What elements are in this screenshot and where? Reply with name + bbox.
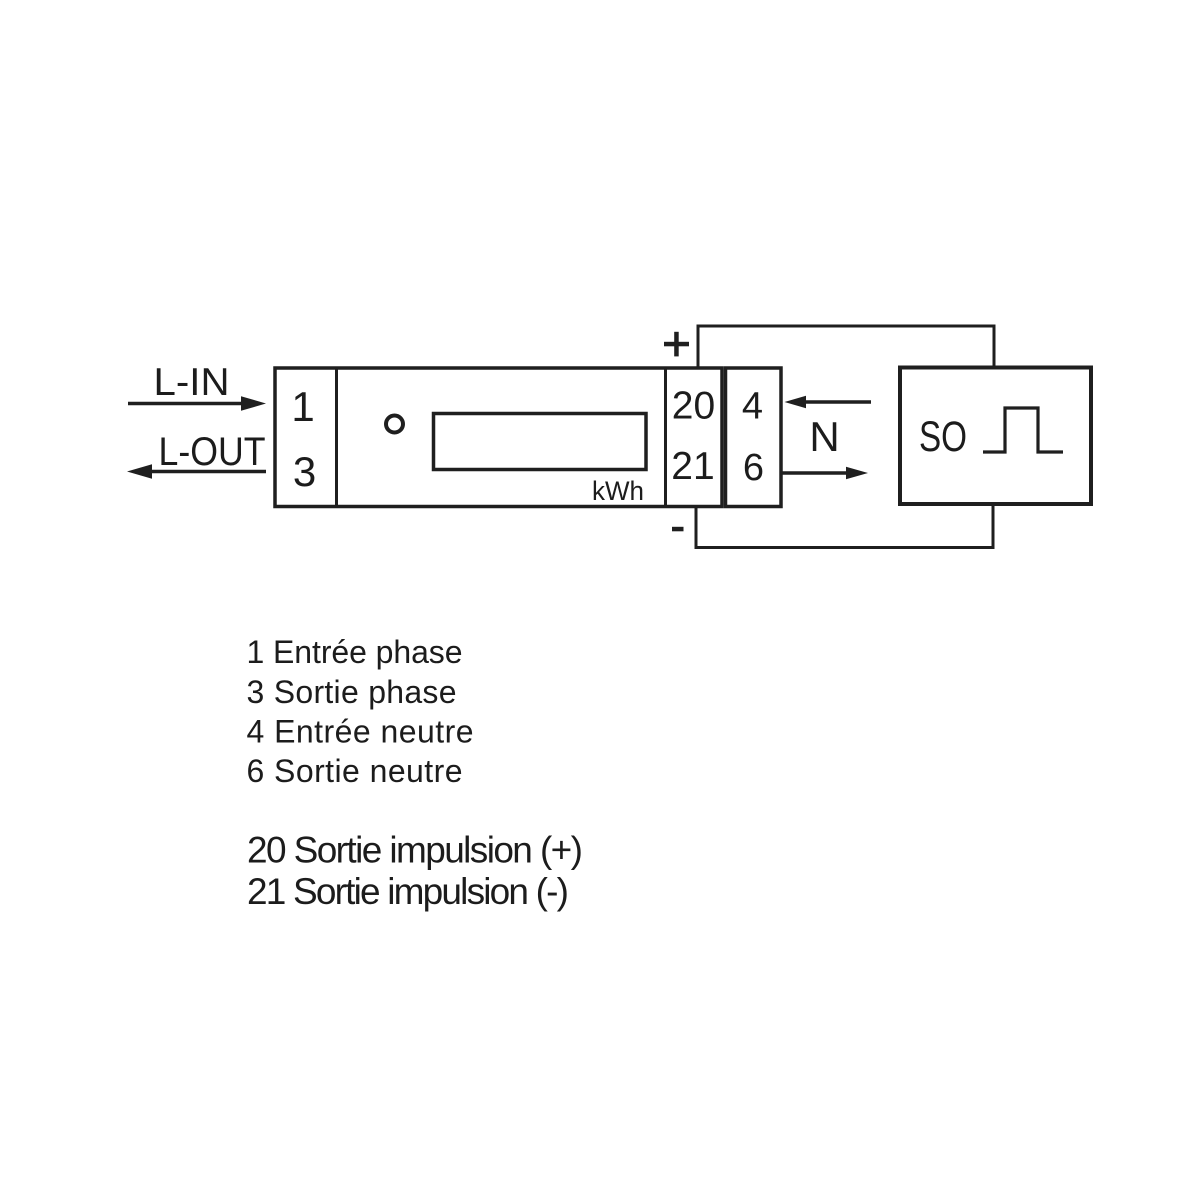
svg-text:1 Entrée phase: 1 Entrée phase xyxy=(247,634,463,670)
svg-text:L-OUT: L-OUT xyxy=(159,430,266,474)
svg-text:N: N xyxy=(809,413,839,460)
svg-text:4: 4 xyxy=(742,386,763,428)
svg-text:6: 6 xyxy=(743,447,764,489)
svg-text:6 Sortie neutre: 6 Sortie neutre xyxy=(247,753,463,789)
svg-text:3: 3 xyxy=(293,448,316,495)
svg-text:20 Sortie impulsion (+): 20 Sortie impulsion (+) xyxy=(247,830,583,871)
svg-text:1: 1 xyxy=(291,383,314,430)
svg-text:L-IN: L-IN xyxy=(154,361,230,404)
svg-text:3 Sortie phase: 3 Sortie phase xyxy=(247,674,457,710)
svg-text:SO: SO xyxy=(919,413,967,461)
svg-text:21 Sortie impulsion (-): 21 Sortie impulsion (-) xyxy=(247,871,569,912)
svg-text:21: 21 xyxy=(671,445,714,488)
svg-text:4 Entrée neutre: 4 Entrée neutre xyxy=(247,713,474,749)
svg-text:20: 20 xyxy=(672,385,715,428)
svg-text:kWh: kWh xyxy=(592,476,644,506)
